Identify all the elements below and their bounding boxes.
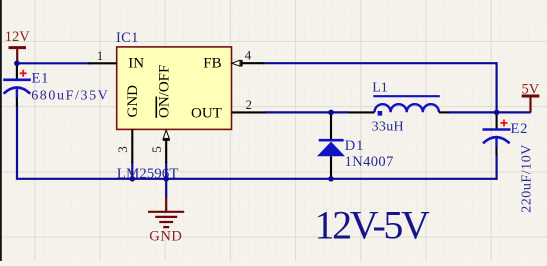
svg-text:FB: FB (203, 56, 221, 72)
wire: pin5 stub to rail (165, 162, 167, 179)
svg-text:LM2596T: LM2596T (117, 166, 179, 182)
junction dot: pin3 rail (130, 176, 136, 182)
junction dot: output node (494, 110, 500, 116)
pin 5 input arrow (163, 130, 169, 138)
IC IC1 (LM2596T) body (117, 47, 232, 129)
capacitor E2 top plate (483, 128, 511, 131)
wire: E2 bottom to rail corner (496, 154, 498, 180)
svg-text:1: 1 (97, 48, 104, 63)
inductor L1 line (373, 95, 440, 97)
svg-text:12V: 12V (5, 29, 31, 45)
wire: pin3 stub to rail (131, 162, 133, 179)
diode D1 top pin (330, 112, 332, 140)
pin 1 line (88, 62, 117, 64)
inductor L1 coil (375, 104, 439, 112)
svg-text:ON/OFF: ON/OFF (157, 65, 173, 118)
svg-text:E2: E2 (511, 121, 529, 137)
capacitor E1 bottom stub (16, 88, 18, 98)
wire: FB pin to right corner (263, 62, 497, 64)
wire: rail to GND symbol (165, 179, 167, 197)
svg-text:1N4007: 1N4007 (345, 154, 394, 170)
svg-text:3: 3 (115, 146, 130, 152)
overline over ON (155, 97, 157, 118)
diode D1 triangle (317, 142, 345, 157)
svg-text:GND: GND (125, 85, 141, 118)
pin 4 input arrow (232, 60, 240, 66)
junction dot: pin5 rail (163, 176, 169, 182)
svg-text:L1: L1 (372, 81, 388, 96)
wire: bottom ground rail (16, 178, 497, 180)
svg-text:D1: D1 (345, 138, 364, 154)
capacitor E1 bottom plate arc (4, 88, 31, 94)
power port 12V bar (9, 48, 27, 63)
svg-text:5: 5 (149, 146, 164, 153)
wire: left vertical E1 to bottom rail (16, 105, 18, 179)
junction dot: 12V node (14, 61, 20, 67)
svg-text:5V: 5V (522, 82, 540, 98)
capacitor E2 top pin (496, 112, 498, 129)
wire: 12V node to IN pin (16, 62, 90, 64)
svg-text:680uF/35V: 680uF/35V (31, 89, 109, 104)
inductor L1 right pin (439, 111, 450, 113)
capacitor E1 top pin (16, 62, 18, 80)
inductor L1 pin1 dot (378, 111, 383, 116)
capacitor E1 bottom pin (16, 98, 18, 107)
svg-text:4: 4 (245, 48, 252, 63)
wire: L1 right to output node (449, 111, 497, 113)
svg-text:220uF/10V: 220uF/10V (520, 144, 535, 213)
diode D1 bottom pin (330, 156, 332, 178)
diode D1 cathode bar (319, 139, 344, 142)
junction dot: D1 top (328, 110, 334, 116)
capacitor E2 bottom stub (495, 138, 497, 148)
capacitor E2 bottom pin (495, 147, 497, 155)
pin 3 line (131, 129, 133, 163)
junction dot: D1 rail (328, 176, 334, 182)
svg-text:33uH: 33uH (372, 120, 404, 135)
pin 2 line (232, 111, 266, 113)
inductor L1 left pin (349, 111, 375, 113)
svg-text:2: 2 (245, 97, 252, 112)
pin 5 line (165, 140, 167, 163)
svg-text:IC1: IC1 (116, 30, 139, 46)
wire: right vertical FB corner down to output node (496, 62, 498, 112)
svg-text:E1: E1 (32, 70, 50, 86)
sheet left border (0, 0, 2, 261)
wire: output node to 5V stem (497, 111, 531, 113)
ground symbol (148, 197, 184, 228)
capacitor E1 top plate (3, 79, 31, 82)
power port 5V bar (522, 96, 540, 112)
svg-text:IN: IN (128, 56, 144, 72)
pin 4 line (242, 62, 264, 64)
svg-text:GND: GND (149, 229, 182, 245)
capacitor E2 plus sign (501, 120, 508, 127)
svg-text:12V-5V: 12V-5V (315, 203, 431, 248)
svg-text:OUT: OUT (191, 105, 222, 121)
capacitor E2 bottom plate arc (483, 137, 510, 143)
wire: OUT pin to L1 (265, 111, 349, 113)
capacitor E1 plus sign (20, 70, 27, 77)
